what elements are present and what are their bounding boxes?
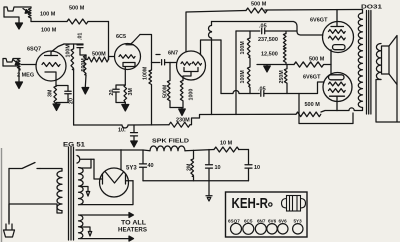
svg-text:5Y3: 5Y3	[294, 219, 303, 224]
svg-text:20: 20	[69, 98, 75, 104]
svg-text:HEATERS: HEATERS	[118, 228, 147, 234]
resistor 1000 cathode	[180, 81, 183, 108]
capacitor 40	[140, 150, 147, 181]
svg-text:10: 10	[215, 165, 221, 171]
svg-text:20: 20	[109, 90, 115, 96]
svg-text:6C5: 6C5	[116, 34, 126, 40]
resistor 500M 6N7 grid	[167, 63, 170, 108]
svg-text:100M: 100M	[240, 41, 246, 55]
grid wire to 6SQ7	[21, 64, 36, 66]
bottom bus	[143, 180, 249, 182]
5Y3 left plate wire	[94, 159, 103, 179]
svg-text:230M: 230M	[176, 118, 190, 124]
svg-text:12,500: 12,500	[261, 52, 278, 58]
ground 6N7	[170, 108, 183, 110]
capacitor 10. to ground	[131, 125, 138, 141]
svg-text:6N7: 6N7	[168, 51, 178, 57]
resistor 100M in plate drop	[149, 63, 152, 126]
B+ rectifier line y=150	[76, 149, 150, 152]
svg-text:2M: 2M	[187, 163, 193, 171]
vertical x=236	[235, 31, 237, 115]
switch	[9, 163, 40, 169]
svg-text:237,500: 237,500	[258, 37, 278, 43]
vertical V1 with hops	[209, 22, 212, 115]
stepped B+ run	[190, 114, 296, 124]
svg-text:.05: .05	[258, 87, 266, 93]
cathode network 6C5: cap 20 + resistor 3M	[124, 85, 127, 103]
svg-text:6V6GT: 6V6GT	[303, 75, 321, 81]
HV center ground	[80, 187, 90, 197]
5Y3 right plate wire	[126, 180, 134, 182]
svg-text:100 M: 100 M	[40, 12, 56, 18]
HV top tap	[80, 159, 91, 168]
svg-text:100M: 100M	[240, 70, 246, 84]
tube 5Y3	[100, 168, 129, 197]
vertical to cathode return	[299, 94, 353, 124]
jack J1	[4, 7, 31, 17]
line y=93.5 with hop and cap .05	[221, 82, 324, 96]
wire to primary	[40, 169, 62, 172]
wire to 6N7 grid	[170, 62, 177, 64]
svg-text:10.: 10.	[118, 128, 126, 134]
speaker	[382, 36, 398, 85]
wire to output transformer top	[265, 10, 363, 14]
svg-text:250M: 250M	[279, 70, 285, 84]
wire to 6C5 grid	[109, 57, 115, 60]
transformer icon	[282, 196, 306, 212]
tube layout circles	[231, 203, 303, 235]
svg-text:6N7: 6N7	[257, 219, 266, 224]
svg-text:SPK FIELD: SPK FIELD	[152, 139, 189, 145]
plug wire up to switch	[8, 169, 10, 223]
wire long drop to B+	[73, 69, 75, 125]
svg-text:EG 51: EG 51	[63, 143, 86, 149]
resistor 500M coupling to 6C5	[86, 55, 109, 62]
svg-text:500M: 500M	[81, 58, 87, 72]
svg-text:500M: 500M	[92, 52, 106, 58]
svg-text:6V6: 6V6	[279, 219, 288, 224]
potentiometer 100M (volume)	[28, 7, 31, 22]
node line y=31	[236, 28, 297, 33]
core	[367, 11, 371, 115]
cathode link 500M	[330, 50, 332, 75]
ground	[84, 75, 87, 88]
svg-text:500 M: 500 M	[309, 57, 325, 63]
wire	[88, 21, 109, 23]
resistors 100M pair	[247, 31, 250, 94]
secondary / voice coil	[376, 44, 381, 80]
capacitor 10 left	[206, 150, 213, 181]
AC plug	[4, 222, 15, 237]
tube 6V6GT lower	[323, 73, 352, 102]
5V winding loop	[77, 156, 80, 164]
plate run to transformer with hop	[337, 108, 363, 111]
resistor 237500	[283, 34, 286, 49]
ground	[4, 17, 19, 23]
B+ bus y=125 with hop	[74, 125, 169, 128]
6C5 plate line	[140, 35, 152, 63]
svg-text:6C5: 6C5	[244, 219, 253, 224]
wire	[31, 21, 67, 23]
svg-text:6V6GT: 6V6GT	[310, 18, 328, 24]
core EG51	[69, 147, 74, 240]
vertical x=221	[220, 40, 222, 94]
svg-text:6V6: 6V6	[268, 219, 277, 224]
6N7 plate lines	[186, 11, 246, 52]
capacitor .1 coupling	[152, 60, 171, 65]
transformer EG51 primary	[57, 171, 62, 211]
svg-text:2 MEG: 2 MEG	[17, 73, 34, 79]
svg-text:40: 40	[148, 163, 154, 169]
svg-text:10 M: 10 M	[220, 141, 233, 147]
resistor 230M	[169, 122, 190, 127]
svg-text:500 M: 500 M	[69, 6, 85, 12]
resistor 250M	[284, 65, 287, 94]
svg-text:3M: 3M	[48, 89, 54, 97]
capacitor 10 right	[245, 150, 252, 181]
tube 6N7	[177, 51, 206, 80]
svg-text:500 M: 500 M	[305, 102, 321, 108]
tube 6SQ7	[36, 51, 66, 81]
svg-text:TO ALL: TO ALL	[121, 221, 146, 227]
resistor 10M	[214, 147, 239, 152]
svg-text:6SQ7: 6SQ7	[27, 47, 41, 53]
scan edge artifact	[1, 148, 3, 242]
tube 6C5	[115, 44, 141, 70]
output transformer DO31 primary	[358, 13, 362, 108]
resistor 500M top	[246, 8, 267, 13]
ground stem	[206, 181, 212, 201]
svg-text:5Y3: 5Y3	[126, 166, 137, 172]
svg-text:KEH-R: KEH-R	[232, 195, 269, 212]
svg-text:100M: 100M	[143, 66, 149, 80]
resistor 2M	[191, 150, 194, 180]
svg-text:6SQ7: 6SQ7	[228, 219, 240, 224]
svg-text:.05: .05	[259, 24, 267, 30]
svg-text:500M: 500M	[163, 84, 169, 98]
resistor 12500	[283, 48, 286, 65]
potentiometer 2MEG	[17, 59, 20, 71]
speaker return wires	[376, 80, 400, 123]
svg-text:1000: 1000	[189, 89, 195, 101]
B+ line L1	[212, 22, 323, 36]
svg-text:DO31: DO31	[361, 5, 382, 11]
svg-text:500 M: 500 M	[251, 2, 267, 8]
svg-text:10: 10	[254, 165, 260, 171]
HV winding	[79, 168, 84, 205]
jack J2	[3, 59, 20, 67]
svg-text:.01: .01	[78, 33, 84, 40]
node plate line	[64, 43, 83, 45]
svg-text:100 M: 100 M	[41, 28, 57, 34]
heater arrows TO ALL HEATERS	[80, 213, 134, 218]
KEH-R model box	[226, 192, 308, 237]
HV bottom to 5Y3 plate	[80, 181, 133, 205]
resistor 100M plate load	[71, 44, 74, 70]
wire drop to 6C5 grid	[108, 22, 110, 60]
svg-text:100M: 100M	[65, 44, 71, 58]
resistor 500M series	[67, 19, 88, 24]
divider ground line	[257, 65, 294, 67]
tube 6V6GT upper	[323, 22, 354, 53]
ground	[3, 66, 19, 82]
capacitor .01	[77, 45, 83, 48]
resistor 500M grid leak	[83, 55, 86, 75]
choke SPK FIELD	[150, 146, 185, 151]
5Y3 cathode to B+	[120, 150, 122, 170]
svg-text:3M: 3M	[128, 88, 134, 96]
cathode network 6SQ7: resistor 3M + cap 20	[54, 86, 57, 106]
resistor 500M lower	[296, 112, 321, 117]
heater winding	[79, 215, 83, 239]
resistor 500M bias upper	[294, 62, 331, 67]
